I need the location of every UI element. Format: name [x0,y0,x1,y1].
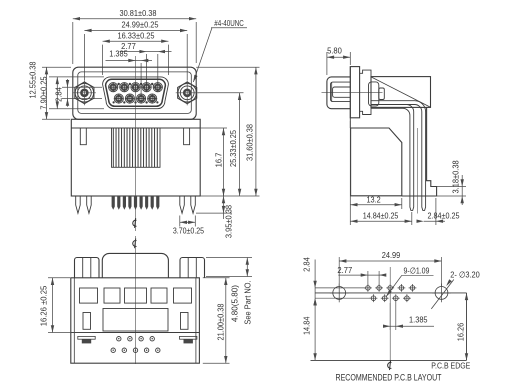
dim 24.99 pcb [339,250,441,286]
dim 2.77 pin pitch [120,41,172,83]
D-shell outer [103,77,169,109]
pin holes row A (bottom view) [117,337,155,341]
svg-text:#4-40UNC: #4-40UNC [214,18,244,28]
dim 2.84 pcb [302,257,372,306]
svg-text:3.18±0.38: 3.18±0.38 [450,160,460,194]
dim 2.84 side [417,198,460,225]
axis centerline side [322,91,383,93]
barrel outer [327,77,350,109]
dim 24.99 screw spacing [84,20,187,80]
board lock right (front) [180,196,196,213]
svg-text:16.7: 16.7 [214,152,224,167]
svg-text:25.33±0.25: 25.33±0.25 [228,130,238,167]
hood diagonal [371,77,430,107]
svg-text:2.77: 2.77 [337,265,352,275]
svg-text:14.84: 14.84 [302,316,312,335]
board lock right (bottom view) [180,336,197,343]
dim 3.70 lock span [173,216,205,236]
centerline front [135,56,137,231]
barrel insulator [333,87,351,97]
svg-text:9-∅1.09: 9-∅1.09 [404,266,430,276]
pcb holes row 2 [370,294,411,302]
step line [71,332,200,334]
pcb centerline [389,267,391,362]
contact tail inner [371,105,414,196]
rear hood [371,77,431,108]
step block top [360,70,371,77]
dim 16.26 pcb [456,293,469,361]
solder tails (front) [112,196,160,210]
centerline bottom view [135,236,137,364]
pin holes row B (bottom view) [111,348,160,352]
D-shell inner [106,79,166,106]
center opening [103,309,168,332]
svg-text:P.C.B EDGE: P.C.B EDGE [431,360,470,370]
flange face line [349,67,351,128]
dim 16.7 [200,128,259,196]
mount hole left [330,284,349,303]
callout 2-3.20 [431,270,480,309]
svg-text:24.99: 24.99 [382,250,401,260]
mount hole right [432,284,451,303]
dim 5.80 [327,46,350,75]
svg-text:13.2: 13.2 [367,195,382,204]
barrel lip [331,82,351,102]
board lock left (front) [76,196,92,213]
step block bottom [360,107,371,114]
svg-text:5.80: 5.80 [327,46,342,56]
notch right [184,128,190,145]
dim 3.18 [437,160,466,205]
dim 31.60 [196,67,259,196]
jack screw right (top view) [180,258,205,278]
dim 21.00 [203,278,230,363]
dim 14.84 [350,212,412,225]
dim 12.55 flange height [28,61,72,119]
dim 3.95 [196,190,234,238]
slots row [80,288,192,303]
svg-text:14.84±0.25: 14.84±0.25 [363,212,399,221]
dim 2.77 pcb [337,265,386,285]
screw nut left [73,80,96,105]
svg-text:4.80(5.80): 4.80(5.80) [229,285,239,322]
label pcb edge [431,360,470,370]
flange (front view) [73,67,196,119]
solder tails (side) [410,196,426,210]
foot profile [402,107,437,196]
dim 1.385 row offset [106,49,153,94]
dim 16.33 shell width [103,31,169,75]
insulator hatch [112,128,161,167]
svg-text:1.385: 1.385 [109,49,128,59]
dim 7.90 shell height [39,76,105,110]
dim 1.385 pcb [383,302,434,330]
label recommended [336,372,442,382]
dim 4.80 [206,258,252,322]
contact tail outer [371,101,426,196]
svg-text:31.60±0.38: 31.60±0.38 [245,124,255,161]
contact holes row 2 (pins 6-9) [114,94,157,103]
contact dimples [113,83,159,104]
jack screw left (top view) [75,258,100,278]
side slot left [83,313,91,330]
svg-text:3.95±0.38: 3.95±0.38 [224,205,234,239]
svg-text:2.84±0.25: 2.84±0.25 [428,212,460,221]
flange (side view) [350,67,359,118]
svg-text:1.385: 1.385 [409,315,428,325]
board lock left (bottom view) [78,336,95,343]
dim 13.2 [350,121,402,225]
callout #4-40UNC [193,18,247,82]
dim 30.81 flange width [73,8,196,64]
centre mark front [133,218,137,228]
svg-text:RECOMMENDED P.C.B LAYOUT: RECOMMENDED P.C.B LAYOUT [336,372,442,382]
svg-text:16.33±0.25: 16.33±0.25 [118,31,155,41]
svg-text:2- ∅3.20: 2- ∅3.20 [450,270,480,280]
side slot right [181,313,189,330]
dim 14.84 pcb [302,298,317,360]
dim 2.84 rows [54,79,103,107]
notch left [80,128,86,145]
lower body block [351,128,402,196]
screw nut right [176,80,199,105]
svg-text:See Part NO.: See Part NO. [243,280,253,324]
svg-text:21.00±0.38: 21.00±0.38 [215,303,225,340]
centre mark pcb [388,360,392,370]
dim 16.26 bottom view [39,278,93,333]
callout 9-1.09 [386,266,433,297]
svg-text:2.84: 2.84 [54,87,64,102]
dim 25.33 [198,93,244,196]
barrel (top view) [102,253,168,277]
see part no [243,280,253,324]
svg-text:3.70±0.25: 3.70±0.25 [173,227,205,236]
body (front view) [71,119,200,196]
contact section [369,82,385,106]
contact holes row 1 (pins 1-5) [109,83,163,92]
pin centerline [417,128,419,214]
svg-text:16.26: 16.26 [456,322,466,341]
svg-text:24.99±0.25: 24.99±0.25 [122,20,159,30]
svg-text:2.84: 2.84 [302,257,312,272]
svg-text:7.90±0.25: 7.90±0.25 [39,76,49,110]
pcb holes row 1 [364,284,416,292]
body (bottom view) [71,278,200,363]
svg-text:16.26 ±0.25: 16.26 ±0.25 [39,285,49,326]
svg-text:12.55±0.38: 12.55±0.38 [28,61,38,98]
svg-text:30.81±0.38: 30.81±0.38 [120,8,157,18]
pcb edge outline [311,293,467,361]
centre mark bottom view [133,238,137,248]
